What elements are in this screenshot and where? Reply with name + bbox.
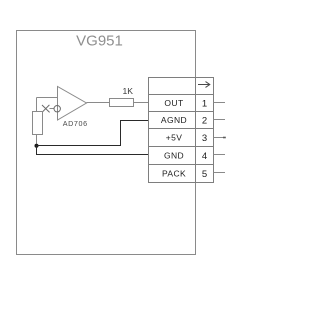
svg-text:1: 1 bbox=[202, 98, 207, 109]
svg-text:OUT: OUT bbox=[164, 98, 183, 108]
svg-text:AD706: AD706 bbox=[63, 119, 88, 128]
svg-text:VG951: VG951 bbox=[76, 33, 123, 50]
svg-text:4: 4 bbox=[202, 151, 207, 162]
svg-text:3: 3 bbox=[202, 133, 207, 144]
svg-text:+5V: +5V bbox=[166, 133, 183, 143]
svg-text:GND: GND bbox=[164, 151, 184, 161]
svg-text:PACK: PACK bbox=[162, 169, 186, 179]
svg-text:AGND: AGND bbox=[161, 115, 187, 125]
svg-text:2: 2 bbox=[202, 115, 207, 126]
svg-text:1K: 1K bbox=[122, 86, 133, 96]
svg-text:5: 5 bbox=[202, 169, 207, 180]
